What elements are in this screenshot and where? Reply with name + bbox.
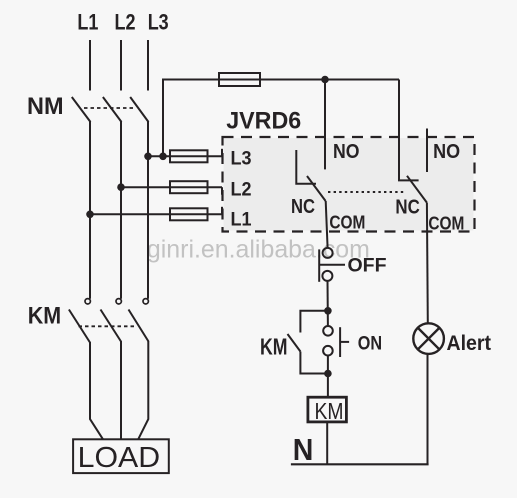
wire ON to coil	[327, 356, 329, 398]
wire lamp to N	[427, 354, 429, 465]
pushbutton ON actuator	[339, 327, 341, 357]
pushbutton ON bottom contact	[323, 346, 333, 356]
svg-text:OFF: OFF	[348, 256, 387, 277]
svg-text:L3: L3	[148, 10, 169, 35]
node L3 tap	[145, 154, 151, 160]
node L2 tap	[118, 184, 124, 190]
terminal stub L1	[221, 207, 223, 215]
svg-text:KM: KM	[260, 334, 288, 360]
breaker NM pole 3 blade	[130, 97, 148, 122]
pushbutton OFF top contact	[323, 248, 333, 258]
relay contact 1 NC terminal	[296, 150, 316, 184]
pushbutton ON top contact	[323, 326, 333, 336]
wire L1 incoming	[89, 40, 91, 91]
terminal stub L3	[221, 149, 223, 157]
svg-text:LOAD: LOAD	[78, 442, 161, 474]
node L1 tap	[87, 212, 93, 218]
wire COM2 to lamp	[426, 203, 429, 324]
svg-text:L2: L2	[231, 179, 252, 201]
svg-text:N: N	[293, 432, 314, 467]
wire L3 after NM	[147, 122, 149, 299]
svg-text:NO: NO	[333, 141, 360, 163]
svg-text:Alert: Alert	[447, 332, 492, 355]
relay mechanical link	[328, 191, 404, 193]
wire L1 to load	[90, 342, 103, 439]
svg-text:JVRD6: JVRD6	[226, 108, 301, 135]
breaker NM pole 1 blade	[72, 97, 91, 122]
wire coil to N	[326, 422, 328, 464]
wire L2 incoming	[120, 40, 122, 91]
svg-text:ginri.en.alibaba.com: ginri.en.alibaba.com	[147, 236, 370, 264]
node parallel branch bottom	[325, 371, 331, 377]
contactor coil KM	[308, 397, 347, 422]
wire KM aux branch upper	[300, 311, 328, 333]
KM mechanical link	[79, 325, 136, 327]
wire L1 tap row	[90, 213, 222, 215]
wire OFF to ON	[327, 281, 329, 326]
wire L3 tap row	[148, 155, 222, 157]
node parallel branch top	[325, 308, 331, 314]
wire COM1 to OFF button	[326, 201, 328, 248]
node NO1 branch	[322, 77, 328, 83]
svg-text:COM: COM	[428, 213, 464, 234]
contactor KM pole 3 blade	[129, 310, 149, 342]
wire NO1 terminal	[324, 80, 326, 170]
breaker NM pole 2 blade	[103, 97, 122, 122]
terminal stub L2	[221, 187, 223, 195]
NM mechanical link	[84, 107, 136, 109]
neutral line N	[291, 463, 429, 465]
svg-text:NM: NM	[27, 93, 64, 120]
fuse row L1	[170, 208, 208, 220]
contactor KM pole 3 contact circle	[143, 299, 148, 304]
svg-text:L2: L2	[115, 10, 136, 35]
svg-text:L1: L1	[77, 10, 98, 35]
JVRD6 module dashed border	[223, 137, 475, 232]
fuse row L3	[170, 150, 208, 162]
contactor KM pole 1 contact circle	[85, 299, 90, 304]
svg-text:NC: NC	[291, 196, 315, 218]
node riser junction	[160, 154, 166, 160]
wire NC2 feed	[399, 80, 419, 181]
wire L1 after NM	[89, 122, 91, 299]
pushbutton OFF bottom contact	[322, 271, 332, 281]
relay contact 1 armature	[307, 176, 326, 201]
load box	[73, 439, 169, 473]
contactor KM aux blade	[288, 334, 301, 352]
svg-text:KM: KM	[28, 303, 61, 330]
wire KM aux branch lower	[300, 352, 328, 374]
relay contact 2 NO terminal	[426, 129, 428, 173]
contactor KM pole 1 blade	[69, 310, 90, 343]
fuse control feed	[219, 73, 260, 86]
pushbutton ON tick	[340, 341, 349, 343]
fuse row L2	[170, 181, 208, 193]
svg-text:NC: NC	[395, 197, 419, 219]
svg-text:L3: L3	[231, 148, 252, 170]
wire L2 to load	[120, 341, 122, 439]
svg-text:L1: L1	[231, 209, 252, 231]
JVRD6 relay module body	[224, 138, 474, 230]
wire L3 incoming	[147, 40, 149, 91]
svg-text:COM: COM	[329, 212, 365, 233]
svg-text:NO: NO	[433, 141, 460, 163]
wire riser to control feed	[163, 80, 399, 157]
lamp Alert	[413, 323, 444, 354]
svg-text:KM: KM	[315, 398, 344, 424]
contactor KM pole 2 contact circle	[116, 299, 121, 304]
svg-text:ON: ON	[358, 334, 382, 355]
wire L2 after NM	[120, 122, 122, 299]
contactor KM pole 2 blade	[101, 310, 122, 342]
relay contact 2 armature	[407, 176, 427, 203]
wire L2 tap row	[121, 186, 222, 188]
pushbutton OFF bridge	[318, 249, 320, 281]
pushbutton OFF rod	[319, 264, 345, 266]
wire L3 to load	[138, 341, 148, 439]
